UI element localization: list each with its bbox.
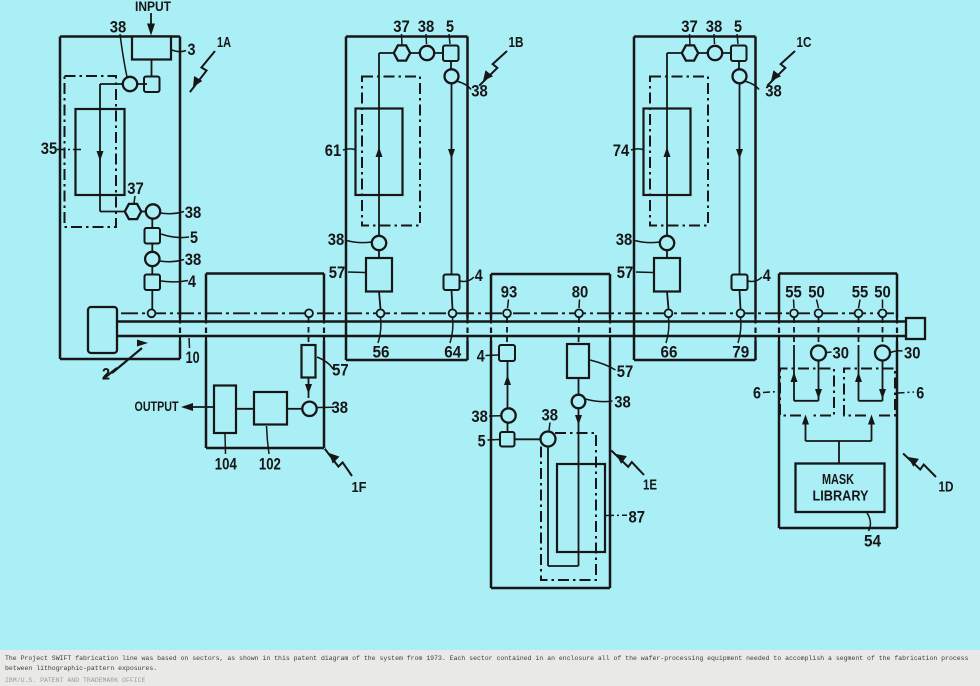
circle 38 mid 1A: [146, 204, 160, 218]
wire 55 right: [858, 318, 860, 346]
wire input arrow: [150, 13, 152, 30]
svg-text:55: 55: [785, 283, 802, 302]
svg-text:1F: 1F: [352, 479, 367, 496]
circle 38 mid 1E: [541, 432, 556, 447]
wire circle to box57: [378, 250, 380, 258]
wire right vertical with arrow: [739, 83, 741, 274]
chamber 87: [557, 464, 605, 552]
node 79: [737, 309, 745, 317]
wire right vertical with arrow: [451, 83, 453, 274]
wire box4 to node: [740, 290, 741, 309]
svg-text:56: 56: [373, 343, 390, 362]
wire box4 to node: [452, 290, 453, 309]
svg-text:38: 38: [706, 17, 723, 36]
circle 38 right: [445, 69, 459, 83]
svg-text:1B: 1B: [509, 34, 524, 51]
node 55: [855, 309, 863, 317]
circle 30 left: [811, 346, 826, 361]
wire hexagon to circle: [141, 211, 148, 213]
chamber 74: [644, 109, 691, 196]
svg-text:4: 4: [763, 266, 771, 285]
chamber 35: [76, 109, 125, 195]
label 38 1F: [318, 406, 335, 408]
node bus right end box: [906, 318, 925, 339]
circle 38 top: [708, 46, 722, 60]
wire box57 to node: [379, 292, 381, 310]
svg-text:37: 37: [393, 17, 410, 36]
wire top chain: [667, 52, 731, 54]
wire 55 left: [793, 318, 795, 346]
wire 50 right through circle30: [882, 318, 884, 346]
wire node80 to box57 dashed: [578, 318, 581, 345]
label 64: [450, 318, 453, 344]
label 38 bottom: [345, 240, 372, 243]
svg-text:INPUT: INPUT: [135, 0, 172, 14]
box 3 input buffer: [132, 37, 171, 60]
svg-text:1D: 1D: [939, 479, 954, 496]
svg-text:4: 4: [188, 272, 196, 291]
wire circle to square: [130, 83, 147, 85]
node on centerline 1F: [305, 309, 313, 317]
wire bus top line: [116, 320, 907, 323]
svg-text:1A: 1A: [217, 34, 231, 51]
svg-text:38: 38: [542, 405, 559, 424]
svg-text:79: 79: [732, 343, 749, 362]
label 38 mid: [161, 212, 185, 214]
wire box57 to circle: [578, 378, 580, 395]
box 57 1E: [567, 344, 589, 378]
svg-text:38: 38: [185, 203, 202, 222]
label 5: [161, 234, 189, 238]
svg-text:5: 5: [190, 228, 198, 247]
svg-text:38: 38: [185, 250, 202, 269]
box 4: [444, 275, 460, 291]
node 93: [503, 309, 511, 317]
svg-text:30: 30: [904, 343, 921, 362]
svg-text:38: 38: [471, 407, 488, 426]
circle 38 right 1E: [572, 395, 586, 409]
node input station 2: [88, 307, 117, 353]
wire 104 to 102: [236, 408, 254, 410]
label 30 left: [827, 351, 832, 354]
label 56: [378, 318, 381, 344]
svg-text:38: 38: [614, 393, 631, 412]
svg-text:MASK: MASK: [822, 472, 854, 488]
svg-text:30: 30: [833, 343, 850, 362]
wire U bottom: [548, 565, 579, 567]
label 38 low: [160, 260, 185, 262]
label 79: [738, 318, 741, 344]
label 30 right: [891, 351, 903, 353]
svg-text:10: 10: [186, 348, 200, 367]
wire top chain: [379, 52, 443, 54]
circle 38 left 1E: [501, 408, 515, 422]
circle 38 top: [420, 46, 434, 60]
circle 30 right: [875, 346, 890, 361]
node 80: [575, 309, 583, 317]
sector enclosure 1A: [60, 35, 180, 38]
wire square to circle: [738, 61, 740, 70]
label 4: [161, 281, 188, 282]
svg-text:57: 57: [617, 362, 634, 381]
wire circle to box57: [666, 250, 668, 258]
svg-text:1C: 1C: [797, 34, 812, 51]
mask holder box 6 right: [844, 369, 895, 416]
svg-text:37: 37: [681, 17, 698, 36]
svg-text:61: 61: [325, 141, 342, 160]
svg-text:4: 4: [477, 347, 485, 366]
svg-text:50: 50: [808, 283, 825, 302]
circle 38 1F: [302, 402, 316, 416]
label 10: [188, 338, 191, 348]
conveyor phantom box: [362, 77, 420, 226]
wire circle to box 102: [287, 408, 303, 410]
svg-text:37: 37: [127, 179, 144, 198]
wire U left up: [547, 447, 549, 567]
square 5: [731, 46, 747, 62]
box 102: [254, 392, 287, 425]
svg-text:80: 80: [572, 283, 589, 302]
svg-text:57: 57: [332, 361, 349, 380]
svg-text:102: 102: [259, 454, 281, 473]
svg-text:6: 6: [753, 383, 761, 402]
svg-text:50: 50: [874, 283, 891, 302]
svg-text:LIBRARY: LIBRARY: [813, 489, 869, 505]
sector enclosure 1D: [779, 272, 897, 275]
label 38 right: [745, 81, 760, 90]
svg-text:38: 38: [418, 17, 435, 36]
label 3: [172, 50, 186, 52]
svg-text:87: 87: [629, 508, 646, 527]
conveyor phantom box 1E: [541, 433, 596, 580]
wire 50 left through circle30: [818, 318, 820, 346]
label 87: [606, 514, 627, 516]
conveyor phantom box 1A: [65, 76, 117, 227]
circle 38 top 1A: [123, 77, 137, 91]
svg-text:104: 104: [215, 454, 237, 473]
svg-text:38: 38: [332, 398, 349, 417]
svg-text:5: 5: [446, 17, 454, 36]
square 5 1E: [500, 432, 515, 447]
wire circle to square5: [507, 423, 509, 432]
svg-text:38: 38: [110, 18, 127, 37]
square 4 1A: [145, 275, 161, 291]
sector enclosure 1B: [346, 35, 468, 38]
box MASK LIBRARY: [796, 464, 885, 513]
node 64: [449, 309, 457, 317]
node 66: [665, 309, 673, 317]
svg-text:6: 6: [916, 383, 924, 402]
svg-text:38: 38: [328, 230, 345, 249]
wire mask library branch: [805, 419, 807, 441]
label 57 1E: [590, 360, 616, 370]
svg-text:4: 4: [475, 266, 483, 285]
node 55: [790, 309, 798, 317]
svg-text:3: 3: [188, 40, 196, 59]
hexagon 37: [682, 45, 698, 60]
circle 38 low 1A: [145, 252, 159, 266]
box 57: [366, 258, 392, 292]
node on centerline 1A: [148, 309, 156, 317]
box 4 1E: [499, 345, 515, 361]
wire square5 to circle mid: [515, 438, 542, 440]
svg-text:1E: 1E: [643, 477, 657, 494]
wire square to circle: [450, 61, 452, 70]
svg-text:5: 5: [478, 431, 486, 450]
wire U right box6: [859, 400, 883, 402]
wire loop left vertical: [666, 53, 668, 236]
square 5: [443, 46, 459, 62]
wire loop left vertical: [378, 53, 380, 236]
wire transport centerline: [121, 312, 896, 314]
label 104: [224, 434, 227, 454]
box 4: [732, 275, 748, 291]
label 102: [267, 426, 270, 454]
wire box57 to circle with arrow: [308, 378, 310, 399]
label 4: [460, 277, 474, 282]
wire box4 to circle with up arrow: [507, 361, 509, 409]
wire chain 1A: [151, 219, 153, 309]
wire chamber to hexagon: [100, 211, 125, 213]
label 4: [748, 277, 762, 282]
box 57 1F: [302, 345, 316, 378]
conveyor phantom box: [650, 77, 708, 226]
wire box57 to node: [667, 292, 669, 310]
label 54: [867, 513, 870, 531]
node 50: [815, 309, 823, 317]
wire junction to chamber: [100, 83, 123, 85]
label 38 right: [457, 81, 472, 90]
sector enclosure 1E: [491, 273, 610, 276]
wire bus bottom line: [116, 335, 907, 338]
svg-text:57: 57: [329, 263, 346, 282]
square 5 1A: [145, 228, 161, 244]
wire node93 to box4 dashed: [506, 318, 508, 346]
svg-text:64: 64: [444, 343, 461, 362]
circle 38 bottom: [660, 236, 674, 250]
wire U left box6: [794, 400, 819, 402]
circle 38 right: [733, 69, 747, 83]
label 38 bottom: [633, 240, 660, 243]
wire node to box57 dashed: [308, 318, 310, 346]
wire box3 to port: [151, 60, 153, 77]
svg-text:55: 55: [852, 283, 869, 302]
hexagon 37: [394, 45, 410, 60]
svg-text:66: 66: [661, 343, 678, 362]
label 57 1F: [317, 357, 333, 369]
box 57: [654, 258, 680, 292]
svg-text:5: 5: [734, 17, 742, 36]
sector enclosure 1C: [634, 35, 756, 38]
chamber 61: [356, 109, 403, 196]
svg-text:38: 38: [616, 230, 633, 249]
wire down through chamber: [578, 408, 580, 566]
box 104: [214, 386, 236, 434]
svg-text:OUTPUT: OUTPUT: [135, 399, 180, 414]
node 56: [377, 309, 385, 317]
hexagon 37 1A: [125, 204, 141, 219]
svg-text:35: 35: [41, 139, 58, 158]
svg-text:57: 57: [617, 263, 634, 282]
mask holder box 6 left: [780, 369, 834, 416]
label 66: [666, 318, 669, 344]
circle 38 bottom: [372, 236, 386, 250]
label 38 right 1E: [586, 399, 613, 402]
svg-text:54: 54: [864, 532, 881, 551]
svg-text:93: 93: [501, 283, 518, 302]
port square 1A top: [144, 77, 160, 93]
node 50: [879, 309, 887, 317]
wire output: [186, 406, 214, 408]
sector enclosure 1F: [206, 272, 324, 275]
svg-text:74: 74: [613, 141, 630, 160]
